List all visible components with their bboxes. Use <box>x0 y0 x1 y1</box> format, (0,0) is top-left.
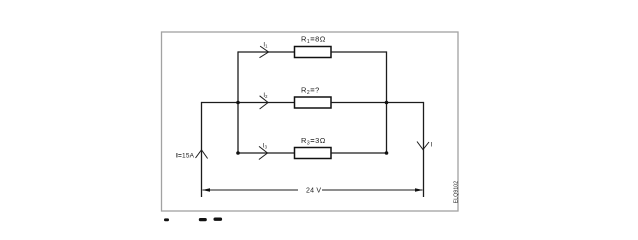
wire: left source lead <box>201 102 203 197</box>
wire: middle rail right segment <box>331 102 424 104</box>
node: left riser / bottom rail junction <box>236 151 240 155</box>
svg-text:ELQ9102: ELQ9102 <box>454 181 460 204</box>
current arrow and label I on right load lead <box>417 141 433 149</box>
current arrow I1 on top branch <box>260 42 269 57</box>
resistor R1 <box>295 34 332 57</box>
caption fragment mark 1 (cut-off text below frame) <box>164 218 169 221</box>
caption fragment mark 3 (cut-off text below frame) <box>214 218 223 221</box>
schematic border frame <box>162 32 459 211</box>
current arrow I3 on bottom branch <box>259 143 268 159</box>
current arrow I2 on middle branch <box>260 93 269 109</box>
wire: top rail left segment <box>238 51 295 53</box>
caption fragment mark 2 (cut-off text below frame) <box>199 218 207 221</box>
svg-text:I=15A: I=15A <box>176 153 195 160</box>
node: right riser / middle rail junction <box>385 101 389 105</box>
wire: right riser connecting three branches <box>386 51 388 153</box>
resistor R3 <box>295 136 332 159</box>
wire: right load lead <box>423 102 425 197</box>
current arrow and label I=15A on left source lead <box>176 150 208 160</box>
svg-text:I3: I3 <box>263 143 268 149</box>
wire: top rail right segment <box>331 51 387 53</box>
wire: left riser connecting three branches <box>237 51 239 153</box>
voltage dimension line 24 V across source <box>202 188 423 195</box>
resistor R2 <box>295 86 332 109</box>
wire: bottom rail left segment <box>238 152 295 154</box>
svg-text:24 V: 24 V <box>306 188 321 195</box>
node: left riser / middle rail junction <box>236 101 240 105</box>
wire: bottom rail right segment <box>331 152 387 154</box>
svg-text:I2: I2 <box>263 93 268 99</box>
svg-text:I1: I1 <box>263 42 268 48</box>
svg-text:I: I <box>431 141 433 148</box>
node: right riser / bottom rail junction <box>385 151 389 155</box>
wire: middle rail left segment <box>202 102 295 104</box>
